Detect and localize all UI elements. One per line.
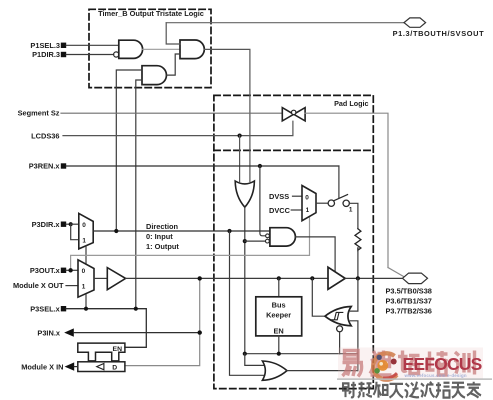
mux M2 (output select): [78, 260, 94, 297]
keeper Schmitt gate U5 (pointing left): [325, 307, 351, 326]
svg-text:1: 1: [306, 207, 310, 214]
svg-text:P3.7/TB2/S36: P3.7/TB2/S36: [386, 306, 432, 315]
slogan char 1: [343, 382, 356, 398]
junction P3DIR fanout: [69, 222, 73, 226]
wire enable net step down to OR U4 input: [245, 354, 264, 366]
switch S1 pivot circle: [328, 200, 334, 206]
U5 enable bubble: [337, 326, 343, 332]
svg-text:P3.5/TB0/S38: P3.5/TB0/S38: [386, 287, 432, 296]
svg-text:P3REN.x: P3REN.x: [29, 162, 61, 171]
P1DIR.3 terminal square: [61, 52, 66, 57]
svg-text:P1.3/TBOUTH/SVSOUT: P1.3/TBOUTH/SVSOUT: [393, 29, 485, 38]
junction LCDS36 branch: [238, 134, 242, 138]
watermark char 1: [343, 351, 364, 377]
transmission gate T1 right triangle: [294, 108, 305, 121]
svg-text:0: Input: 0: Input: [146, 232, 173, 241]
wire U2 output into pad AND inverted input: [245, 240, 266, 242]
svg-text:P3IN.x: P3IN.x: [37, 328, 60, 337]
wire P3OUT to mux M2 input 0: [71, 269, 78, 271]
junction P3SEL to AND3: [134, 307, 138, 311]
wire DVSS to mux M3: [293, 195, 303, 197]
junction P3OUT fanout: [68, 268, 72, 272]
wire AND2 output down to REN OR gate: [204, 49, 250, 181]
wire resistor to pad net: [357, 249, 359, 278]
svg-text:Module X OUT: Module X OUT: [13, 281, 64, 290]
svg-text:EEFOCUS: EEFOCUS: [403, 354, 482, 374]
wire P3SEL.x: [66, 309, 146, 348]
junction data net to keeper gate tip: [310, 276, 314, 280]
wire M1 select from P3SEL (through mux M2): [85, 246, 87, 264]
wire Segment Sz to transmission gate: [61, 112, 282, 114]
wire Module X IN stub: [74, 366, 78, 368]
svg-text:Bus: Bus: [272, 300, 286, 309]
P1SEL.3 terminal square: [61, 43, 66, 48]
wire M3 output to switch: [316, 202, 328, 204]
slogan char 9: [467, 382, 481, 398]
Timer_B Output Tristate Logic dashed box: [89, 9, 211, 87]
svg-text:0: 0: [82, 222, 86, 229]
wire Direction branch down to OR gate U4: [230, 231, 264, 375]
wire internal data net B1 to output driver: [126, 277, 328, 279]
transmission gate T1 bubble: [292, 110, 296, 114]
wire pad feedback vertical into AND2 top input: [166, 23, 180, 44]
slogan char 6: [421, 382, 435, 397]
svg-text:Timer_B Output Tristate Logic: Timer_B Output Tristate Logic: [98, 9, 204, 18]
junction pad net at resistor: [356, 276, 360, 280]
OR gate U2 (REN logic, pointing down): [235, 181, 254, 207]
watermark char 3: [398, 351, 420, 374]
mux M1 (direction select): [79, 213, 93, 249]
junction P3REN branch: [258, 164, 262, 168]
output driver buffer B2: [328, 267, 345, 289]
wire bus keeper top connection: [278, 278, 280, 296]
wire P3OUT branch up to DVSS/DVCC mux select: [71, 217, 310, 271]
junction P3SEL to M2 select: [84, 307, 88, 311]
AND gate AND3 (direction / P3SEL): [142, 66, 166, 85]
wire keeper gate tip to data net: [312, 278, 325, 316]
wire P3REN control to pullup switch: [338, 166, 340, 197]
wire U2 output down: [244, 207, 246, 354]
P3IN.x arrow head: [64, 328, 74, 336]
slogan char 5: [405, 382, 420, 398]
svg-text:P1DIR.3: P1DIR.3: [32, 50, 60, 59]
switch S1 lever: [334, 195, 348, 201]
wire Module X OUT to mux M2 input 1: [66, 285, 78, 287]
watermark halo band: [338, 348, 483, 380]
wire M2 select from P3SEL: [85, 295, 87, 309]
svg-text:Keeper: Keeper: [266, 310, 291, 319]
svg-text:0: 0: [82, 268, 86, 275]
OR gate U4 (bottom): [262, 361, 287, 380]
U3 inverter bubble (REN input): [266, 234, 270, 238]
transmission gate T1 left triangle: [282, 108, 293, 121]
slogan char 3: [374, 382, 388, 398]
input latch enable box EN: [78, 343, 125, 361]
wire data net branch vertical to input latch: [125, 278, 200, 365]
AND1 input inverter bubble: [114, 52, 119, 57]
slogan char 4: [390, 384, 404, 398]
svg-text:0: 0: [305, 195, 309, 202]
resistor R1 (pull resistor): [355, 229, 361, 251]
wire DVCC to mux M3: [291, 209, 302, 211]
AND gate AND2 (output AND): [180, 40, 204, 59]
Pad Logic dashed box: [214, 95, 373, 388]
wire P3DIR to mux M1 input 1: [71, 224, 79, 240]
wire P1DIR.3 to AND1 inverted input: [66, 54, 113, 56]
U5 hysteresis symbol: [331, 312, 343, 319]
junction data net to bus keeper: [277, 276, 281, 280]
junction data net to P3IN branch: [198, 276, 202, 280]
watermark char 5: [454, 351, 475, 375]
svg-text:Module X IN: Module X IN: [21, 362, 63, 371]
watermark gray slogan characters: [343, 382, 481, 398]
junction U2 output to pad AND: [243, 239, 247, 243]
svg-text:Pad Logic: Pad Logic: [334, 99, 368, 108]
switch S1 second circle: [343, 200, 349, 206]
wire U5 bottom input stub: [350, 321, 358, 371]
wire M2 output to buffer B1: [94, 277, 107, 279]
Bus Keeper box: [256, 297, 302, 336]
wire U4 output to keeper input net: [287, 370, 358, 372]
P3DIR.x terminal square: [61, 222, 66, 227]
svg-text:1: 1: [349, 207, 353, 214]
svg-text:LCDS36: LCDS36: [31, 131, 59, 140]
svg-text:1: 1: [82, 238, 86, 245]
wire keeper enable net: [245, 353, 358, 355]
wire AND3 output to AND2 bottom input: [167, 54, 181, 75]
wire bus keeper bottom to enable net: [278, 336, 280, 354]
mux M3 (pull resistor source select): [302, 186, 316, 221]
wire Direction line (M1 output to pad AND): [93, 230, 270, 232]
U3 inverter bubble (OR input): [266, 239, 270, 243]
wire P3REN branch down to pad AND inverted input: [260, 166, 266, 236]
wire AND3 top input from Direction line: [116, 70, 142, 231]
P3SEL.x terminal square: [61, 306, 66, 311]
latch clock triangle: [97, 364, 104, 370]
svg-text:www.eefocus.com e-design: www.eefocus.com e-design: [404, 373, 467, 378]
svg-text:DVSS: DVSS: [269, 192, 289, 201]
wire to P1.3 output pad: [166, 22, 404, 24]
wire P3REN.x: [66, 165, 339, 167]
buffer B1 (output path): [107, 268, 125, 290]
P3OUT.x terminal square: [61, 268, 66, 273]
svg-text:DVCC: DVCC: [269, 206, 291, 215]
pad AND gate U3 (with two inverted inputs): [270, 228, 296, 246]
wire pad net down to keeper input: [350, 278, 358, 311]
junction Direction to AND3: [114, 229, 118, 233]
wire U3 output to driver enable: [295, 237, 335, 272]
svg-text:EN: EN: [273, 327, 283, 336]
input latch box: [78, 362, 125, 372]
AND gate AND1 (P1SEL.3 / P1DIR.3): [119, 40, 143, 58]
svg-text:EN: EN: [113, 346, 123, 353]
wire AND3 bottom input from P3SEL line: [136, 80, 142, 309]
P3REN.x terminal square: [61, 163, 66, 168]
wire transmission gate output to pad: [305, 113, 388, 267]
svg-text:1: Output: 1: Output: [146, 242, 179, 251]
wire P3IN.x: [74, 332, 200, 334]
slogan char 8: [452, 383, 466, 398]
pad logic internal dashed divider: [214, 149, 373, 151]
junction enable net at bus keeper: [277, 352, 281, 356]
svg-text:1: 1: [82, 283, 86, 290]
svg-text:P3OUT.x: P3OUT.x: [30, 266, 61, 275]
watermark char 2: [370, 351, 392, 376]
wire P3OUT.x stub: [66, 269, 70, 271]
junction enable net at U2 output: [243, 352, 247, 356]
junction P3IN on branch vertical: [198, 330, 202, 334]
watermark gray rule: [337, 378, 492, 380]
wire driver output to pad: [345, 277, 402, 279]
wire P1SEL.3 to AND1: [66, 44, 119, 46]
svg-text:P3SEL.x: P3SEL.x: [30, 304, 60, 313]
wire LCDS36 to transmission gate control: [63, 121, 293, 135]
svg-text:P3.6/TB1/S37: P3.6/TB1/S37: [386, 296, 432, 305]
wire U5 bubble to enable net: [339, 332, 341, 354]
wire P3DIR.x stub: [66, 223, 71, 225]
watermark EEFOCUS logo: [373, 351, 397, 379]
slogan char 7: [436, 382, 450, 397]
junction Direction branch down: [227, 229, 231, 233]
slogan char 2: [358, 382, 372, 398]
svg-text:Direction: Direction: [146, 222, 179, 231]
wire LCDS36 branch down to REN OR gate: [239, 136, 241, 182]
svg-text:D: D: [112, 364, 117, 371]
wire P3DIR to mux M1 input 0: [71, 223, 79, 225]
wire switch to resistor: [349, 203, 358, 228]
pad symbol P1.3 hexagon: [404, 18, 426, 27]
wire AND1 output to AND2 middle input: [143, 48, 180, 50]
Module X IN arrow head: [65, 362, 75, 370]
watermark overlay: [337, 348, 492, 398]
watermark char 4: [426, 351, 449, 375]
svg-text:Segment Sz: Segment Sz: [18, 109, 60, 118]
svg-text:P1SEL.3: P1SEL.3: [30, 41, 60, 50]
wire diagonal into pad symbol: [388, 268, 404, 277]
pad symbol P3.x hexagon: [403, 273, 428, 284]
svg-text:P3DIR.x: P3DIR.x: [32, 220, 61, 229]
